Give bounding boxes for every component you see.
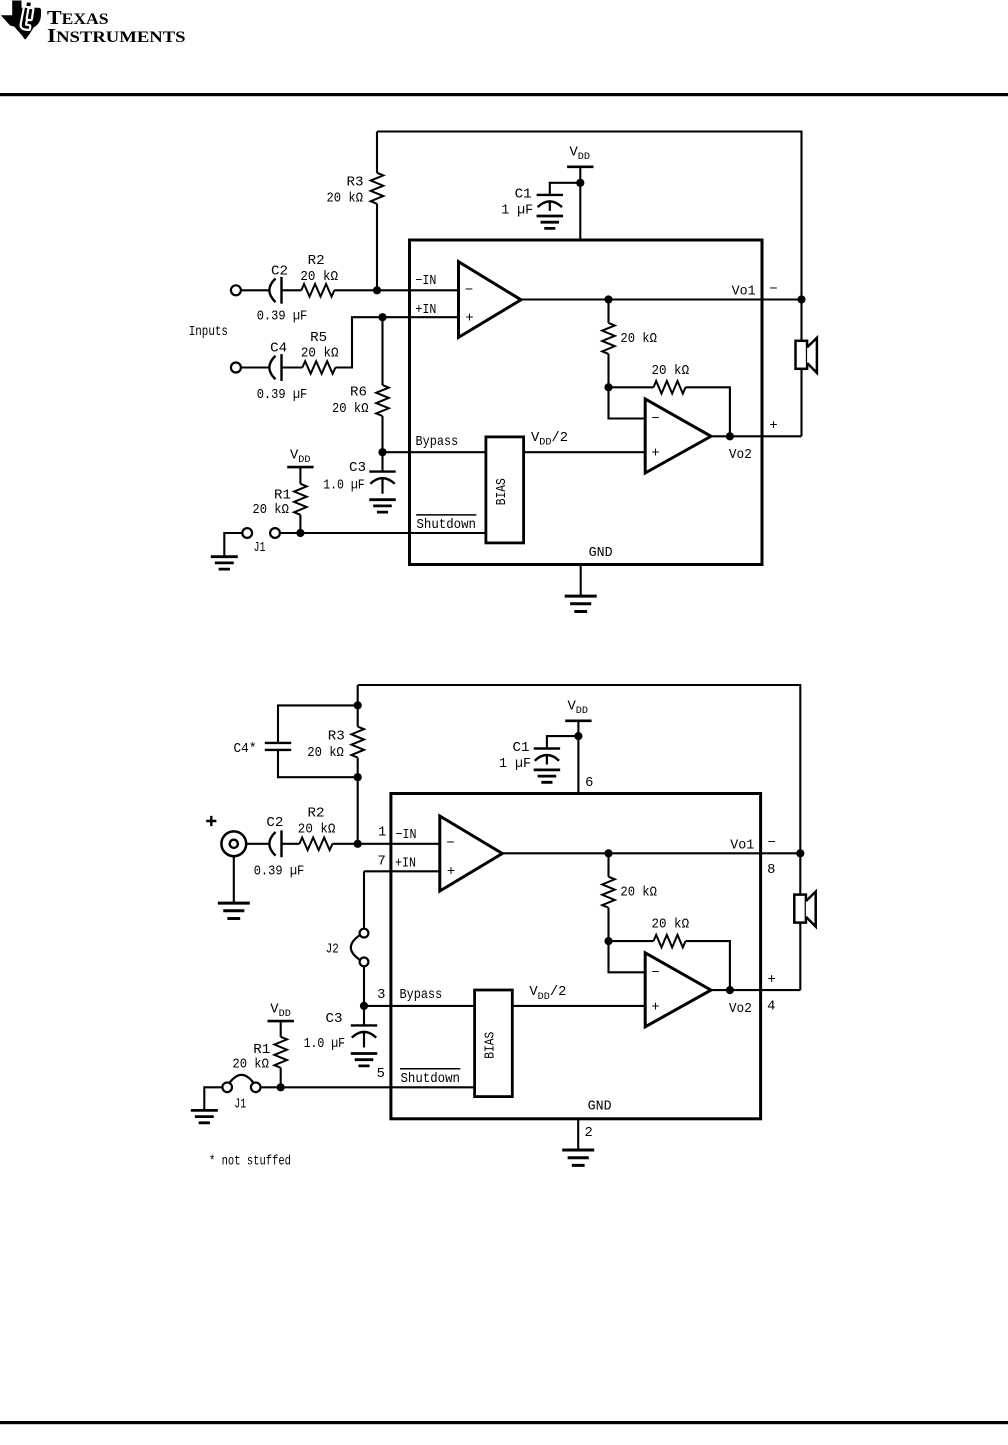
wire to ground from J1 bbox=[224, 533, 242, 557]
svg-text:R2: R2 bbox=[308, 807, 325, 822]
svg-text:1 µF: 1 µF bbox=[501, 204, 533, 219]
ground main bbox=[565, 596, 597, 611]
svg-text:R3: R3 bbox=[328, 730, 345, 745]
svg-text:Bypass: Bypass bbox=[416, 435, 459, 450]
jumper J2 bbox=[363, 871, 365, 929]
svg-text:C4*: C4* bbox=[234, 741, 257, 757]
svg-text:4: 4 bbox=[767, 1000, 775, 1015]
svg-text:BIAS: BIAS bbox=[495, 478, 510, 505]
svg-text:Shutdown: Shutdown bbox=[417, 517, 477, 533]
footer rule bbox=[0, 1421, 1008, 1424]
svg-text:20 kΩ: 20 kΩ bbox=[652, 917, 690, 933]
wire to ground from J1 (2) bbox=[204, 1087, 222, 1110]
svg-text:C3: C3 bbox=[349, 461, 366, 476]
speaker wire lower bbox=[800, 369, 802, 437]
junction Bypass node bbox=[378, 448, 386, 456]
wire op-amp1 output / Vo1 (2) bbox=[502, 852, 800, 854]
wire Shutdown bbox=[300, 532, 486, 534]
ground at J1 (2) bbox=[191, 1110, 218, 1122]
wire op-amp2 output / Vo2 (2) bbox=[711, 989, 800, 991]
svg-text:C2: C2 bbox=[266, 816, 283, 831]
svg-text:6: 6 bbox=[585, 776, 593, 791]
resistor R3 bbox=[376, 132, 378, 173]
wire Vdd/2 to op-amp2 (2) bbox=[512, 1005, 645, 1007]
svg-text:20 kΩ: 20 kΩ bbox=[301, 346, 339, 362]
svg-text:0.39 µF: 0.39 µF bbox=[257, 388, 308, 403]
wire op-amp2 output / Vo2 bbox=[711, 435, 802, 437]
IC box bbox=[410, 240, 763, 565]
jumper J1 bbox=[242, 528, 252, 538]
capacitor C3 bbox=[381, 452, 383, 471]
svg-text:R1: R1 bbox=[253, 1043, 270, 1058]
svg-text:2: 2 bbox=[584, 1126, 592, 1141]
svg-text:−: − bbox=[651, 412, 659, 427]
GND pin wire (2) bbox=[577, 1119, 579, 1150]
op-amp U1a (2) bbox=[440, 816, 503, 891]
resistor R2 bbox=[301, 284, 334, 297]
wire Bypass bbox=[383, 451, 486, 453]
svg-text:R5: R5 bbox=[310, 331, 327, 346]
capacitor C1 bbox=[550, 183, 581, 195]
svg-text:1: 1 bbox=[378, 825, 386, 840]
svg-text:0.39 µF: 0.39 µF bbox=[254, 865, 305, 880]
ground under C3 bbox=[369, 500, 396, 512]
Vdd supply node 2 bbox=[565, 719, 591, 722]
junction R1/Shutdown (2) bbox=[277, 1083, 285, 1091]
svg-text:+: + bbox=[651, 447, 659, 462]
svg-text:Vo1: Vo1 bbox=[732, 285, 756, 300]
IC box 2 bbox=[391, 794, 761, 1119]
svg-text:J1: J1 bbox=[234, 1098, 246, 1113]
svg-text:+IN: +IN bbox=[395, 856, 416, 871]
svg-text:−IN: −IN bbox=[396, 828, 417, 843]
resistor R1 bbox=[299, 467, 301, 484]
svg-text:Vo2: Vo2 bbox=[729, 1002, 752, 1017]
junction Bypass (2) bbox=[360, 1002, 368, 1010]
resistor R3 (2) bbox=[351, 727, 364, 758]
capacitor C2 bbox=[269, 279, 275, 303]
svg-text:Bypass: Bypass bbox=[400, 988, 443, 1003]
input terminal row 1 bbox=[231, 285, 241, 295]
junction R3/C4 bottom bbox=[354, 773, 362, 781]
svg-text:5: 5 bbox=[377, 1067, 385, 1082]
resistor 20k feedback (2) bbox=[609, 940, 654, 942]
svg-text:20 kΩ: 20 kΩ bbox=[332, 401, 369, 417]
junction divider/feedback (2) bbox=[604, 937, 612, 945]
junction Vdd/C1 (2) bbox=[574, 732, 582, 740]
resistor R6 bbox=[381, 317, 383, 385]
svg-text:20 kΩ: 20 kΩ bbox=[232, 1057, 269, 1073]
svg-text:20 kΩ: 20 kΩ bbox=[620, 331, 657, 347]
junction Vdd/C1 bbox=[576, 179, 584, 187]
svg-text:R2: R2 bbox=[308, 254, 325, 269]
capacitor C1 (2) bbox=[547, 736, 579, 748]
op-amp U1b bbox=[645, 399, 711, 473]
svg-text:C1: C1 bbox=[515, 188, 532, 203]
svg-text:TEXAS: TEXAS bbox=[47, 7, 109, 29]
svg-text:−: − bbox=[651, 966, 659, 981]
wire op-amp1 output / Vo1 bbox=[521, 298, 802, 300]
RCA jack bbox=[221, 831, 246, 856]
svg-text:0.39 µF: 0.39 µF bbox=[257, 310, 308, 325]
svg-text:Shutdown: Shutdown bbox=[401, 1071, 461, 1087]
junction divider/feedback bbox=[604, 383, 612, 391]
svg-text:C1: C1 bbox=[513, 741, 530, 756]
svg-text:20 kΩ: 20 kΩ bbox=[300, 269, 338, 285]
ground under C1 (2) bbox=[534, 770, 561, 782]
svg-text:1 µF: 1 µF bbox=[499, 757, 531, 772]
GND pin wire bbox=[580, 565, 582, 597]
speaker wire upper bbox=[800, 300, 802, 342]
svg-text:+: + bbox=[465, 312, 473, 327]
svg-text:BIAS: BIAS bbox=[484, 1032, 499, 1059]
wire Shutdown (2) bbox=[281, 1086, 475, 1088]
svg-text:+: + bbox=[651, 1000, 659, 1015]
op-amp U1b (2) bbox=[645, 953, 711, 1027]
svg-text:R1: R1 bbox=[274, 488, 291, 503]
svg-text:1.0 µF: 1.0 µF bbox=[323, 478, 365, 493]
svg-text:R3: R3 bbox=[347, 176, 364, 191]
junction R2/R3 (2) bbox=[354, 840, 362, 848]
svg-text:20 kΩ: 20 kΩ bbox=[307, 745, 344, 761]
resistor R1 (2) bbox=[280, 1021, 282, 1037]
junction R3/C4 top bbox=[357, 685, 359, 727]
svg-text:+: + bbox=[447, 865, 455, 880]
capacitor C2 (2) bbox=[269, 832, 275, 856]
svg-text:Inputs: Inputs bbox=[189, 325, 228, 340]
wire RCA to C2 bbox=[246, 843, 269, 845]
capacitor C3 (2) bbox=[363, 1006, 365, 1026]
svg-text:8: 8 bbox=[767, 863, 775, 878]
svg-text:20 kΩ: 20 kΩ bbox=[652, 363, 690, 379]
svg-text:+: + bbox=[768, 973, 776, 988]
svg-text:20 kΩ: 20 kΩ bbox=[620, 885, 657, 901]
junction R1/Shutdown bbox=[296, 529, 304, 537]
RCA ground wire bbox=[233, 856, 235, 903]
header rule bbox=[0, 93, 1008, 96]
svg-text:C3: C3 bbox=[326, 1012, 343, 1027]
wire +IN (2) bbox=[364, 870, 440, 872]
svg-text:1.0 µF: 1.0 µF bbox=[304, 1037, 346, 1052]
ground main (2) bbox=[562, 1150, 594, 1165]
speaker (2) bbox=[794, 895, 806, 923]
svg-text:* not stuffed: * not stuffed bbox=[209, 1154, 291, 1170]
speaker bbox=[796, 341, 808, 369]
plus input marker bbox=[206, 816, 216, 826]
resistor 20k divider bbox=[607, 300, 609, 323]
ground at RCA bbox=[218, 903, 250, 918]
wire top feedback rail bbox=[377, 132, 802, 300]
ground at J1 bbox=[211, 557, 238, 569]
speaker wire lower (2) bbox=[799, 923, 801, 991]
ground under C1 bbox=[537, 216, 564, 228]
svg-text:−: − bbox=[768, 836, 776, 851]
resistor 20k feedback bbox=[609, 386, 654, 388]
capacitor C4* branch bbox=[278, 705, 358, 743]
svg-text:−: − bbox=[446, 837, 454, 852]
speaker wire upper (2) bbox=[799, 853, 801, 895]
Vdd supply node R1 bbox=[287, 466, 313, 469]
svg-text:20 kΩ: 20 kΩ bbox=[327, 191, 364, 207]
svg-text:Vo1: Vo1 bbox=[730, 839, 754, 854]
svg-text:C4: C4 bbox=[270, 342, 287, 357]
wire to op-amp2 inverting input bbox=[609, 387, 646, 418]
wire Vdd/2 to op-amp2 bbox=[524, 451, 646, 453]
svg-text:J2: J2 bbox=[326, 943, 339, 958]
svg-text:J1: J1 bbox=[254, 541, 266, 556]
junction +IN node bbox=[378, 313, 386, 321]
BIAS block 2 bbox=[475, 990, 513, 1097]
resistor R5 bbox=[302, 361, 335, 374]
svg-text:−: − bbox=[769, 282, 777, 297]
svg-text:INSTRUMENTS: INSTRUMENTS bbox=[47, 25, 186, 47]
TI logo bug bbox=[1, 1, 41, 40]
svg-text:−IN: −IN bbox=[415, 274, 436, 289]
wire top feedback rail 2 bbox=[358, 685, 801, 853]
svg-text:7: 7 bbox=[377, 855, 385, 870]
svg-text:Vo2: Vo2 bbox=[729, 448, 752, 463]
op-amp U1a bbox=[459, 262, 522, 338]
wire to op-amp2 inverting input (2) bbox=[609, 941, 646, 972]
svg-text:+IN: +IN bbox=[415, 303, 436, 318]
svg-text:C2: C2 bbox=[271, 265, 288, 280]
resistor R2 (2) bbox=[299, 838, 332, 851]
BIAS block bbox=[486, 437, 524, 543]
svg-text:20 kΩ: 20 kΩ bbox=[298, 821, 336, 837]
wire Bypass (2) bbox=[364, 1005, 475, 1007]
svg-text:GND: GND bbox=[588, 1099, 612, 1114]
input terminal row 2 bbox=[231, 363, 241, 373]
svg-text:−: − bbox=[465, 283, 473, 298]
svg-text:20 kΩ: 20 kΩ bbox=[252, 502, 289, 518]
junction R2/R3 bbox=[373, 286, 381, 294]
jumper J1 (2) bbox=[222, 1083, 232, 1093]
Vdd supply node bbox=[567, 166, 593, 169]
svg-text:GND: GND bbox=[589, 546, 613, 561]
Vdd supply node R1 (2) bbox=[268, 1020, 294, 1023]
capacitor C4 bbox=[269, 356, 275, 380]
svg-text:+: + bbox=[769, 419, 777, 434]
resistor 20k divider (2) bbox=[607, 853, 609, 876]
ground under C3 (2) bbox=[351, 1054, 378, 1066]
svg-text:R6: R6 bbox=[350, 385, 367, 400]
svg-text:3: 3 bbox=[377, 988, 385, 1003]
